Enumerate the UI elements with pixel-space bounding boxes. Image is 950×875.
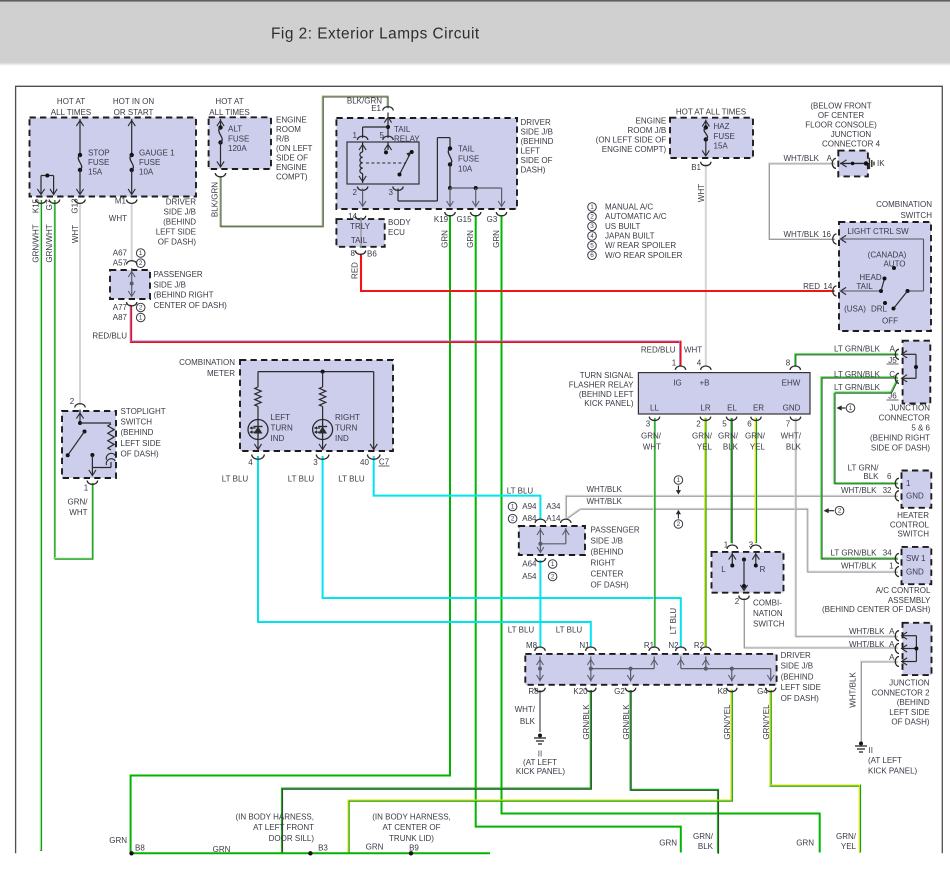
svg-text:TAIL: TAIL bbox=[458, 145, 475, 154]
light ctrl sw internal bbox=[841, 235, 847, 242]
svg-text:LT GRN/BLK: LT GRN/BLK bbox=[834, 370, 881, 379]
svg-text:2: 2 bbox=[353, 188, 358, 197]
a/c control pin 34 bbox=[895, 554, 899, 564]
svg-text:ENGINE: ENGINE bbox=[276, 163, 307, 172]
svg-text:WHT/BLK: WHT/BLK bbox=[783, 154, 819, 163]
meter pin 4 bbox=[252, 455, 265, 460]
svg-text:(BEHIND: (BEHIND bbox=[521, 137, 554, 146]
tail relay feed wiring bbox=[387, 113, 389, 139]
junction connector 4 internal bbox=[832, 158, 836, 168]
svg-text:C7: C7 bbox=[379, 458, 390, 467]
svg-text:C: C bbox=[889, 370, 895, 379]
svg-text:GRN/BLK: GRN/BLK bbox=[582, 704, 591, 740]
pin G15 bbox=[471, 212, 481, 216]
svg-text:DOOR SILL): DOOR SILL) bbox=[269, 834, 315, 843]
svg-text:OR START: OR START bbox=[114, 108, 154, 117]
svg-text:34: 34 bbox=[883, 549, 892, 558]
svg-text:6: 6 bbox=[590, 252, 594, 259]
svg-text:15A: 15A bbox=[714, 142, 729, 151]
svg-text:LT BLU: LT BLU bbox=[669, 608, 678, 635]
wire GRN/YEL flasher LR to R2 bbox=[704, 418, 706, 647]
annotation arrow 1 down bbox=[674, 476, 683, 485]
svg-text:SW 1: SW 1 bbox=[906, 554, 926, 563]
stoplight switch box bbox=[62, 411, 116, 478]
svg-text:GRN/: GRN/ bbox=[693, 832, 714, 841]
svg-text:2: 2 bbox=[139, 304, 143, 311]
svg-text:2: 2 bbox=[551, 573, 555, 580]
wire GRN/BLK K20 bbox=[282, 690, 591, 853]
svg-text:E1: E1 bbox=[371, 104, 381, 113]
svg-text:US BUILT: US BUILT bbox=[605, 222, 641, 231]
svg-text:HOT IN ON: HOT IN ON bbox=[113, 97, 154, 106]
svg-text:J5: J5 bbox=[888, 356, 897, 365]
label A94 A84 circled bbox=[508, 502, 517, 511]
svg-text:GRN/: GRN/ bbox=[836, 832, 857, 841]
svg-text:K15: K15 bbox=[32, 198, 41, 213]
svg-text:GND: GND bbox=[906, 568, 924, 577]
svg-text:OF DASH): OF DASH) bbox=[158, 238, 197, 247]
svg-text:G2: G2 bbox=[614, 687, 625, 696]
svg-text:1: 1 bbox=[724, 541, 729, 550]
svg-text:N1: N1 bbox=[579, 641, 590, 650]
svg-text:1: 1 bbox=[139, 314, 143, 321]
flasher relay pin 1 IG bbox=[675, 366, 685, 370]
svg-text:5: 5 bbox=[722, 420, 727, 429]
junction connector 5-6 box bbox=[903, 341, 931, 404]
svg-text:GRN: GRN bbox=[109, 836, 127, 845]
svg-text:PASSENGER: PASSENGER bbox=[591, 526, 640, 535]
svg-text:TURN SIGNAL: TURN SIGNAL bbox=[580, 371, 634, 380]
svg-text:GRN/YEL: GRN/YEL bbox=[723, 704, 732, 740]
svg-text:1: 1 bbox=[677, 477, 681, 484]
svg-text:2: 2 bbox=[139, 260, 143, 267]
haz fuse 15A bbox=[705, 120, 707, 127]
svg-text:CONNECTOR: CONNECTOR bbox=[879, 414, 931, 423]
svg-text:A77: A77 bbox=[113, 303, 128, 312]
svg-text:BODY: BODY bbox=[388, 218, 411, 227]
turn signal flasher relay box bbox=[638, 373, 810, 414]
wire G3 GRN bbox=[502, 215, 820, 853]
svg-text:10A: 10A bbox=[139, 168, 154, 177]
wire LT BLU meter pin3 to N2 bbox=[323, 456, 681, 647]
svg-text:AUTOMATIC A/C: AUTOMATIC A/C bbox=[605, 212, 667, 221]
svg-text:TURN: TURN bbox=[335, 424, 357, 433]
junction connector 4 box bbox=[838, 151, 868, 177]
svg-text:DRL: DRL bbox=[871, 305, 888, 314]
light ctrl sw pin 14 bbox=[833, 286, 837, 296]
svg-text:A: A bbox=[889, 653, 895, 662]
pin G13 bbox=[75, 200, 85, 204]
svg-text:2: 2 bbox=[677, 521, 681, 528]
svg-text:GRN/: GRN/ bbox=[692, 432, 713, 441]
svg-text:JUNCTION: JUNCTION bbox=[889, 679, 930, 688]
svg-text:LT BLU: LT BLU bbox=[508, 626, 535, 635]
svg-text:MANUAL A/C: MANUAL A/C bbox=[605, 203, 653, 212]
annotation arrow 2 up bbox=[674, 520, 683, 529]
svg-text:LT GRN/BLK: LT GRN/BLK bbox=[834, 383, 881, 392]
pin K19 bbox=[445, 212, 455, 216]
wire K19 GRN tail fuse to splice B8 bbox=[131, 215, 450, 853]
svg-text:15A: 15A bbox=[88, 168, 103, 177]
svg-text:3: 3 bbox=[590, 223, 594, 230]
wire BLK/GRN alt fuse to tail relay E1 bbox=[221, 97, 388, 227]
flasher relay pin 7 GND bbox=[790, 417, 800, 421]
svg-text:B9: B9 bbox=[409, 844, 419, 853]
svg-text:16: 16 bbox=[822, 230, 831, 239]
flasher relay pin 3 LL bbox=[649, 417, 659, 421]
svg-text:OF DASH): OF DASH) bbox=[121, 449, 160, 458]
svg-text:BLK/GRN: BLK/GRN bbox=[211, 182, 220, 217]
splice B3 bbox=[308, 851, 312, 855]
svg-text:2: 2 bbox=[511, 516, 515, 523]
tail relay pin 2 bbox=[357, 187, 367, 191]
svg-text:1: 1 bbox=[511, 503, 515, 510]
svg-text:SWITCH: SWITCH bbox=[753, 620, 785, 629]
wire GRN/BLK G2 bbox=[631, 690, 718, 853]
svg-text:LT BLU: LT BLU bbox=[288, 475, 315, 484]
svg-text:WHT/BLK: WHT/BLK bbox=[849, 627, 885, 636]
svg-text:AT CENTER OF: AT CENTER OF bbox=[383, 823, 441, 832]
svg-text:KICK PANEL): KICK PANEL) bbox=[584, 399, 634, 408]
svg-text:OF DASH): OF DASH) bbox=[891, 718, 930, 727]
svg-text:WHT/BLK: WHT/BLK bbox=[841, 486, 877, 495]
svg-text:SIDE OF DASH): SIDE OF DASH) bbox=[871, 444, 930, 453]
tail relay pin E1 bbox=[383, 107, 393, 111]
engine room R/B alt fuse box bbox=[209, 117, 271, 169]
pin A77 bbox=[127, 302, 137, 306]
svg-text:COMBINATION: COMBINATION bbox=[876, 200, 932, 209]
svg-text:(ON LEFT SIDE OF: (ON LEFT SIDE OF bbox=[596, 136, 667, 145]
wire GRN/YEL G4 bbox=[771, 690, 860, 853]
svg-text:HEATER: HEATER bbox=[897, 511, 929, 520]
svg-text:(BEHIND CENTER OF DASH): (BEHIND CENTER OF DASH) bbox=[822, 605, 931, 614]
junction connector 2 box bbox=[903, 623, 932, 675]
svg-text:A14: A14 bbox=[546, 514, 561, 523]
svg-text:A34: A34 bbox=[546, 502, 561, 511]
svg-text:II: II bbox=[869, 746, 873, 755]
svg-text:LT BLU: LT BLU bbox=[556, 626, 583, 635]
svg-text:STOP: STOP bbox=[88, 149, 110, 158]
svg-text:TAIL: TAIL bbox=[394, 125, 411, 134]
svg-text:8: 8 bbox=[351, 249, 356, 258]
svg-text:(BEHIND LEFT: (BEHIND LEFT bbox=[579, 390, 634, 399]
svg-text:(BEHIND: (BEHIND bbox=[163, 218, 196, 227]
tail relay dashed box (driver side J/B) bbox=[336, 118, 517, 209]
driver J/B pin M8 bbox=[535, 647, 545, 651]
flasher relay pin 5 EL bbox=[726, 417, 736, 421]
svg-text:A: A bbox=[890, 344, 896, 353]
svg-text:LT BLU: LT BLU bbox=[507, 487, 534, 496]
svg-text:CENTER: CENTER bbox=[591, 570, 624, 579]
svg-text:A67: A67 bbox=[113, 249, 128, 258]
svg-text:GRN: GRN bbox=[492, 230, 501, 248]
stoplight switch internal bbox=[75, 404, 85, 408]
svg-text:B3: B3 bbox=[318, 844, 328, 853]
svg-text:WHT/BLK: WHT/BLK bbox=[849, 672, 858, 708]
svg-text:1: 1 bbox=[84, 484, 89, 493]
svg-text:R2: R2 bbox=[694, 641, 705, 650]
flasher relay pin 6 ER bbox=[751, 417, 761, 421]
driver J/B pin K20 bbox=[586, 688, 596, 692]
svg-text:CONNECTOR 2: CONNECTOR 2 bbox=[872, 688, 931, 697]
svg-text:ROOM: ROOM bbox=[276, 125, 301, 134]
svg-text:WHT: WHT bbox=[643, 443, 661, 452]
svg-text:FLASHER RELAY: FLASHER RELAY bbox=[569, 380, 634, 389]
svg-text:1: 1 bbox=[849, 405, 853, 412]
flasher relay pin 8 EHW bbox=[790, 366, 800, 370]
wire B1 WHT haz fuse to flasher +B bbox=[705, 164, 707, 366]
svg-text:COMPT): COMPT) bbox=[276, 173, 308, 182]
svg-text:7: 7 bbox=[786, 420, 791, 429]
svg-text:KICK PANEL): KICK PANEL) bbox=[516, 767, 566, 776]
svg-text:(BEHIND: (BEHIND bbox=[121, 428, 154, 437]
svg-text:YEL: YEL bbox=[697, 443, 713, 452]
svg-text:FUSE: FUSE bbox=[139, 158, 160, 167]
svg-text:(BEHIND RIGHT: (BEHIND RIGHT bbox=[154, 291, 214, 300]
svg-text:(IN BODY HARNESS,: (IN BODY HARNESS, bbox=[372, 813, 451, 822]
svg-text:PASSENGER: PASSENGER bbox=[154, 270, 203, 279]
svg-text:LT BLU: LT BLU bbox=[338, 475, 365, 484]
svg-text:WHT: WHT bbox=[684, 346, 702, 355]
driver J/B pin R1 bbox=[649, 647, 659, 651]
svg-text:JUNCTION: JUNCTION bbox=[831, 130, 872, 139]
svg-text:3: 3 bbox=[646, 420, 651, 429]
engine room J/B haz fuse box bbox=[670, 118, 753, 158]
flasher relay pin 4 +B bbox=[701, 366, 711, 370]
heater control pin 6 bbox=[895, 478, 899, 488]
svg-text:8: 8 bbox=[786, 359, 791, 368]
svg-text:LEFT: LEFT bbox=[521, 146, 541, 155]
svg-text:DASH): DASH) bbox=[521, 165, 546, 174]
svg-text:STOPLIGHT: STOPLIGHT bbox=[121, 407, 166, 416]
ground at left kick panel (junction connector 2) bbox=[859, 742, 863, 746]
svg-text:EL: EL bbox=[727, 404, 737, 413]
svg-text:(BEHIND: (BEHIND bbox=[591, 548, 624, 557]
svg-text:SWITCH: SWITCH bbox=[121, 418, 153, 427]
svg-text:GAUGE 1: GAUGE 1 bbox=[139, 149, 175, 158]
svg-text:GND: GND bbox=[906, 491, 924, 500]
splice B8 bbox=[129, 851, 133, 855]
svg-text:B8: B8 bbox=[135, 844, 145, 853]
svg-text:ENGINE: ENGINE bbox=[276, 116, 307, 125]
body ECU TRLY/TAIL box bbox=[336, 219, 384, 247]
svg-text:GRN/: GRN/ bbox=[718, 432, 739, 441]
wire K15 GRN/WHT bbox=[40, 200, 42, 851]
svg-text:GRN/BLK: GRN/BLK bbox=[622, 704, 631, 740]
svg-text:GRN/WHT: GRN/WHT bbox=[32, 224, 41, 262]
svg-text:(BEHIND RIGHT: (BEHIND RIGHT bbox=[870, 434, 930, 443]
svg-text:GRN/YEL: GRN/YEL bbox=[762, 704, 771, 740]
svg-text:G15: G15 bbox=[456, 215, 472, 224]
svg-text:R8: R8 bbox=[528, 687, 539, 696]
legend options bbox=[588, 203, 597, 212]
svg-text:2: 2 bbox=[735, 597, 740, 606]
pin B1 bbox=[701, 162, 711, 166]
annotation left arrow 1 (junction 5-6) bbox=[840, 407, 846, 409]
meter pin 3 bbox=[316, 455, 329, 460]
svg-text:(USA): (USA) bbox=[844, 305, 866, 314]
svg-text:GRN/: GRN/ bbox=[68, 498, 89, 507]
wire RED/BLU passenger J/B to flasher IG bbox=[131, 305, 680, 366]
tail relay switch bbox=[387, 142, 389, 150]
svg-text:N2: N2 bbox=[668, 641, 679, 650]
svg-text:TURN: TURN bbox=[271, 424, 293, 433]
meter right branch bbox=[373, 372, 375, 450]
svg-text:RED: RED bbox=[351, 262, 360, 279]
svg-text:W/ REAR SPOILER: W/ REAR SPOILER bbox=[605, 241, 676, 250]
svg-text:BLK: BLK bbox=[863, 472, 879, 481]
svg-text:W/O REAR SPOILER: W/O REAR SPOILER bbox=[605, 251, 683, 260]
svg-text:5: 5 bbox=[590, 242, 594, 249]
driver J/B bottom internal bbox=[539, 657, 541, 682]
svg-text:GRN: GRN bbox=[796, 839, 814, 848]
svg-text:6: 6 bbox=[747, 420, 752, 429]
wire G7 GRN/WHT bbox=[53, 200, 55, 559]
svg-text:TRUNK LID): TRUNK LID) bbox=[389, 834, 434, 843]
svg-text:1: 1 bbox=[353, 131, 358, 140]
svg-text:LEFT SIDE: LEFT SIDE bbox=[889, 708, 929, 717]
svg-text:(ON LEFT: (ON LEFT bbox=[276, 144, 313, 153]
svg-text:ROOM J/B: ROOM J/B bbox=[628, 126, 667, 135]
flasher relay pin 2 LR bbox=[700, 417, 710, 421]
svg-text:G3: G3 bbox=[487, 215, 498, 224]
svg-text:1: 1 bbox=[906, 479, 911, 488]
svg-text:1: 1 bbox=[139, 250, 143, 257]
svg-text:+B: +B bbox=[699, 379, 709, 388]
stop fuse 15A bbox=[79, 119, 81, 155]
alt fuse 120A bbox=[220, 119, 222, 127]
driver J/B pin R8 bbox=[535, 688, 545, 692]
wire WHT/BLK flasher GND to junction connector 2 A bbox=[796, 418, 898, 636]
meter pin 40 bbox=[367, 455, 380, 460]
svg-text:L: L bbox=[721, 565, 726, 574]
svg-text:A84: A84 bbox=[522, 514, 537, 523]
wire M1 WHT to passenger J/B bbox=[131, 203, 133, 262]
wire LT BLU meter pin4 to N1 bbox=[258, 456, 591, 647]
svg-text:SIDE J/B: SIDE J/B bbox=[164, 208, 196, 217]
svg-text:DRIVER: DRIVER bbox=[166, 198, 196, 207]
svg-text:A87: A87 bbox=[113, 313, 128, 322]
svg-text:1: 1 bbox=[889, 562, 894, 571]
wire GRN/YEL flasher ER to combi sw 3 bbox=[755, 418, 757, 543]
svg-text:1: 1 bbox=[551, 561, 555, 568]
svg-text:ALL TIMES: ALL TIMES bbox=[209, 108, 249, 117]
svg-text:K8: K8 bbox=[718, 687, 728, 696]
svg-text:LT GRN/BLK: LT GRN/BLK bbox=[831, 549, 878, 558]
pin G7 bbox=[49, 200, 59, 204]
svg-text:FUSE: FUSE bbox=[228, 134, 249, 143]
left turn ind resistor bbox=[257, 372, 259, 387]
svg-text:WHT/BLK: WHT/BLK bbox=[783, 230, 819, 239]
pin M1 bbox=[127, 200, 137, 204]
svg-text:4: 4 bbox=[590, 233, 594, 240]
gauge 1 fuse 10A bbox=[131, 119, 133, 155]
svg-text:2: 2 bbox=[70, 397, 75, 406]
passenger J/B A34 pin bbox=[561, 519, 571, 523]
a/c control pin 1 bbox=[895, 567, 899, 577]
svg-text:BLK: BLK bbox=[520, 717, 536, 726]
svg-text:(AT LEFT: (AT LEFT bbox=[523, 758, 557, 767]
svg-text:LR: LR bbox=[700, 404, 710, 413]
svg-text:WHT/: WHT/ bbox=[781, 432, 802, 441]
svg-text:R1: R1 bbox=[644, 641, 655, 650]
svg-text:3: 3 bbox=[749, 541, 754, 550]
combi switch pin 2 bbox=[739, 596, 749, 600]
svg-text:G4: G4 bbox=[757, 687, 768, 696]
svg-text:2: 2 bbox=[838, 508, 842, 515]
svg-text:WHT: WHT bbox=[109, 214, 127, 223]
passenger J/B A64 pin bbox=[535, 558, 545, 562]
svg-text:GRN/: GRN/ bbox=[641, 432, 662, 441]
svg-text:IG: IG bbox=[673, 379, 681, 388]
wire RED body ECU B6 to light ctrl sw 14 bbox=[361, 254, 835, 292]
svg-text:ENGINE COMPT): ENGINE COMPT) bbox=[602, 145, 667, 154]
svg-text:A54: A54 bbox=[522, 572, 537, 581]
relay out to body ECU bbox=[362, 189, 364, 207]
stoplight switch pin 1 bbox=[87, 481, 97, 485]
left turn ind lamp bbox=[257, 407, 259, 420]
svg-text:WHT: WHT bbox=[697, 184, 706, 202]
svg-text:A94: A94 bbox=[522, 502, 537, 511]
svg-text:A: A bbox=[827, 154, 833, 163]
A/C control assembly box bbox=[902, 547, 932, 584]
svg-text:JUNCTION: JUNCTION bbox=[890, 404, 931, 413]
svg-text:1: 1 bbox=[590, 204, 594, 211]
passenger jb internal bbox=[131, 268, 133, 296]
svg-text:4: 4 bbox=[697, 359, 702, 368]
combi switch internal bbox=[731, 551, 733, 566]
svg-text:B1: B1 bbox=[691, 163, 701, 172]
driver J/B pin G4 bbox=[766, 688, 776, 692]
wire WHT/BLK junction connector 2 A to ground bbox=[861, 662, 898, 743]
svg-text:(BEHIND: (BEHIND bbox=[897, 698, 930, 707]
splice B9 bbox=[409, 851, 413, 855]
body ECU pin 8 bbox=[355, 251, 365, 255]
svg-text:SIDE OF: SIDE OF bbox=[276, 154, 308, 163]
svg-text:M8: M8 bbox=[526, 641, 538, 650]
tail fuse 10A circuit bbox=[397, 189, 399, 202]
driver J/B pin G2 bbox=[625, 688, 635, 692]
svg-text:2: 2 bbox=[590, 213, 594, 220]
svg-text:GRN: GRN bbox=[366, 843, 384, 852]
wire WHT/BLK junction connector 4 to light ctrl sw 16 bbox=[769, 163, 835, 239]
svg-text:A57: A57 bbox=[113, 259, 128, 268]
svg-text:10A: 10A bbox=[458, 165, 473, 174]
wire GRN splice bus B8-B3-B9 bbox=[131, 852, 490, 854]
svg-text:LIGHT CTRL SW: LIGHT CTRL SW bbox=[847, 227, 909, 236]
svg-text:GRN: GRN bbox=[213, 845, 231, 854]
svg-text:G7: G7 bbox=[45, 199, 54, 210]
svg-text:METER: METER bbox=[207, 369, 235, 378]
svg-text:2: 2 bbox=[696, 420, 701, 429]
pin K15 bbox=[36, 200, 46, 204]
right turn ind resistor bbox=[322, 372, 324, 387]
svg-text:AUTO: AUTO bbox=[883, 260, 905, 269]
driver side J/B box (bottom) bbox=[525, 654, 776, 685]
svg-text:GND: GND bbox=[783, 404, 801, 413]
svg-text:R/B: R/B bbox=[276, 135, 289, 144]
svg-text:COMBINATION: COMBINATION bbox=[179, 358, 235, 367]
svg-text:TAIL: TAIL bbox=[856, 282, 873, 291]
svg-text:IND: IND bbox=[335, 434, 349, 443]
svg-text:WHT/BLK: WHT/BLK bbox=[849, 640, 885, 649]
pin A67 bbox=[127, 261, 137, 265]
wire LT GRN/BLK junction C to heater 6 bbox=[835, 380, 898, 393]
svg-text:LEFT SIDE: LEFT SIDE bbox=[121, 439, 161, 448]
wire LT BLU A64 to M8 bbox=[539, 560, 541, 647]
combi switch pin 3 bbox=[751, 545, 761, 549]
svg-text:ENGINE: ENGINE bbox=[636, 117, 667, 126]
